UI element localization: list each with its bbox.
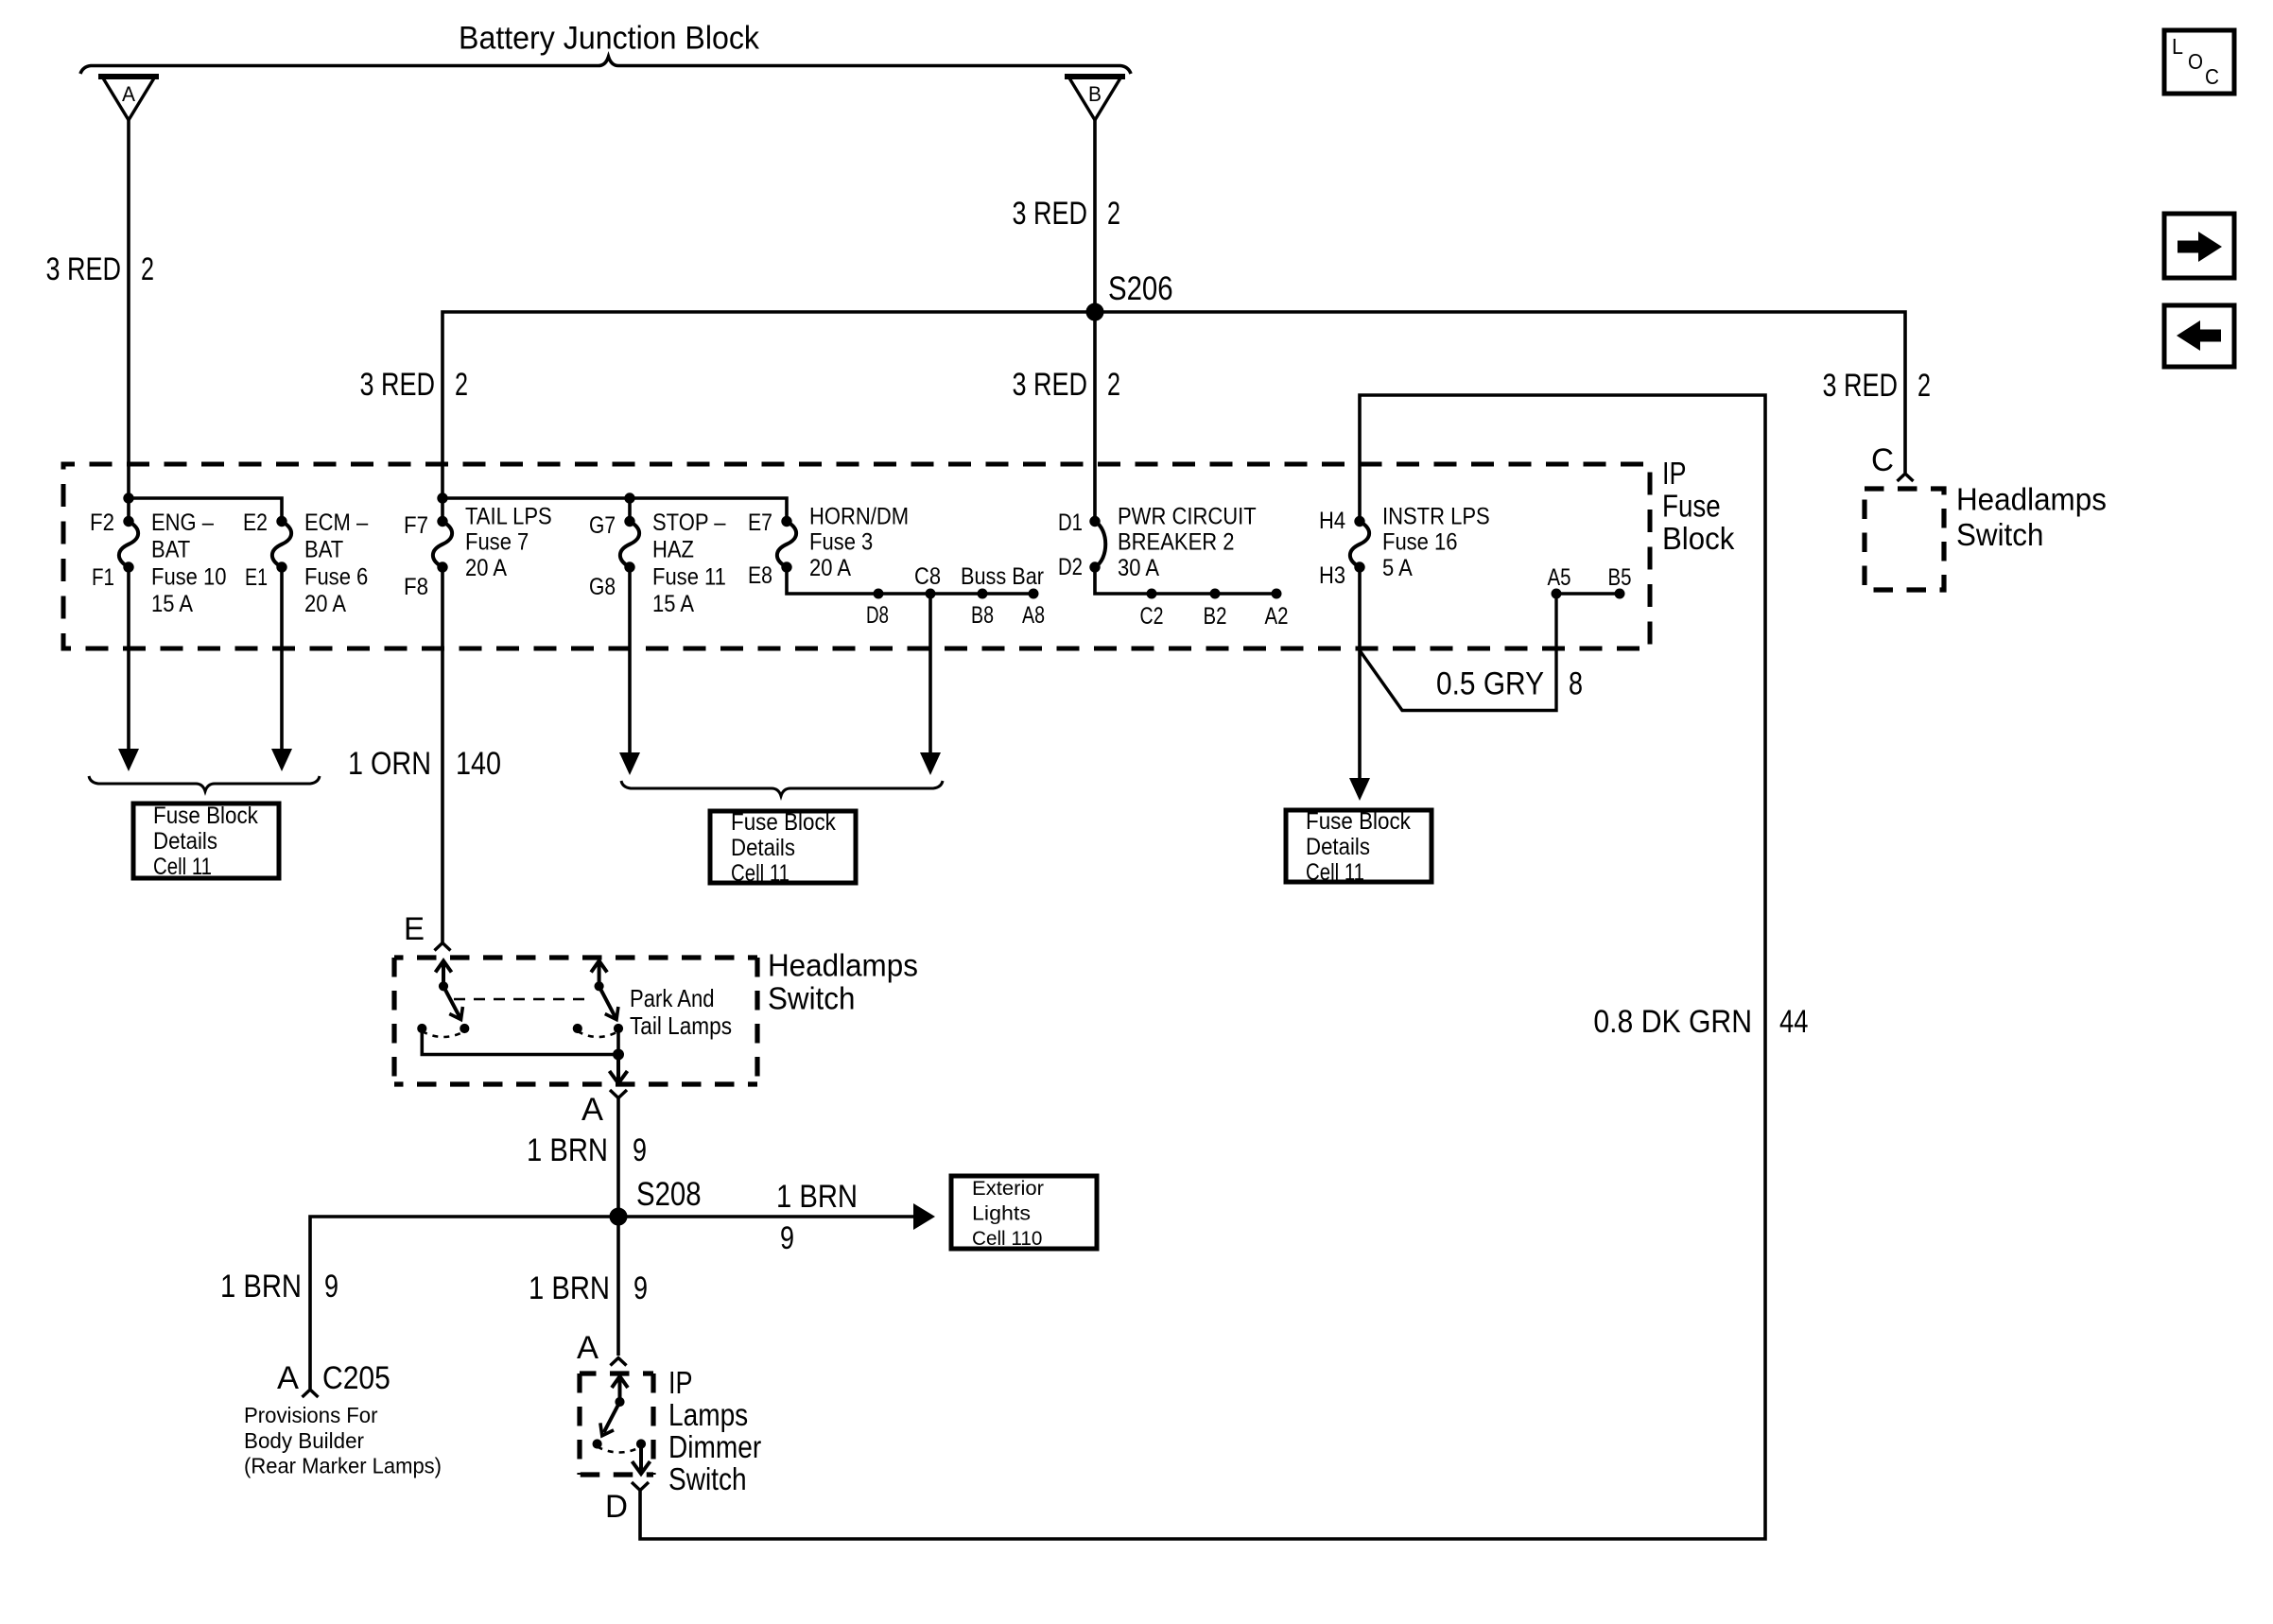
svg-text:Details: Details <box>153 828 217 855</box>
svg-text:O: O <box>2188 49 2203 74</box>
svg-text:B: B <box>1088 82 1102 106</box>
legend: LOC box <box>2164 30 2234 94</box>
svg-text:Switch: Switch <box>1956 517 2043 552</box>
svg-text:D2: D2 <box>1058 554 1083 580</box>
legend: back arrow box <box>2164 305 2234 367</box>
svg-text:2: 2 <box>141 251 154 287</box>
svg-text:D: D <box>605 1489 628 1525</box>
svg-text:Cell 11: Cell 11 <box>153 854 212 880</box>
svg-text:9: 9 <box>780 1220 794 1256</box>
svg-text:Headlamps: Headlamps <box>768 948 918 983</box>
svg-text:Fuse 16: Fuse 16 <box>1382 529 1458 556</box>
svg-text:A: A <box>122 82 135 106</box>
svg-text:9: 9 <box>324 1269 338 1304</box>
callout box: Fuse Block Details Cell 11 (middle) <box>710 811 856 883</box>
svg-text:A2: A2 <box>1265 603 1289 630</box>
svg-text:5 A: 5 A <box>1382 555 1413 581</box>
svg-text:1 BRN: 1 BRN <box>527 1132 608 1168</box>
IP lamps dimmer switch dashed box <box>580 1371 653 1375</box>
wire: feed B to PWR circuit breaker <box>1093 120 1097 522</box>
svg-text:3 RED: 3 RED <box>1823 368 1899 404</box>
wire: jumper F7 to G7 to E7 <box>442 498 787 522</box>
splice S206 <box>1086 303 1103 320</box>
svg-text:Buss Bar: Buss Bar <box>961 563 1044 590</box>
svg-text:20 A: 20 A <box>465 555 507 581</box>
callout box: Exterior Lights Cell 110 <box>951 1176 1097 1249</box>
callout box: Fuse Block Details Cell 11 (right) <box>1286 810 1431 882</box>
svg-text:F1: F1 <box>92 564 114 591</box>
svg-text:Details: Details <box>1306 834 1370 860</box>
svg-text:1 BRN: 1 BRN <box>529 1270 610 1306</box>
connector D (dimmer output) <box>632 1482 640 1491</box>
connector B (battery junction block) triangle <box>1068 77 1121 120</box>
wire: TAIL LPS output 1 ORN <box>441 567 444 943</box>
callout box: Fuse Block Details Cell 11 (left) <box>133 803 279 878</box>
wire: breaker output terminals <box>1095 567 1276 594</box>
svg-text:Dimmer: Dimmer <box>668 1429 761 1464</box>
svg-text:A: A <box>581 1092 603 1128</box>
wire: 0.5 GRY jumper <box>1360 594 1556 711</box>
svg-text:INSTR LPS: INSTR LPS <box>1382 504 1490 530</box>
svg-text:D1: D1 <box>1058 510 1083 536</box>
svg-text:Fuse 10: Fuse 10 <box>151 563 227 590</box>
svg-text:2: 2 <box>1107 196 1120 232</box>
svg-text:S206: S206 <box>1108 270 1173 307</box>
svg-text:D8: D8 <box>866 602 889 629</box>
svg-text:H3: H3 <box>1319 562 1345 589</box>
svg-text:2: 2 <box>455 367 468 403</box>
connector A into dimmer switch <box>611 1358 627 1366</box>
svg-text:3 RED: 3 RED <box>46 251 122 287</box>
svg-text:H4: H4 <box>1319 508 1345 534</box>
wire: jumper F2 to E2 <box>129 498 282 522</box>
svg-text:Cell 11: Cell 11 <box>731 860 789 887</box>
svg-text:9: 9 <box>633 1270 648 1306</box>
svg-text:15 A: 15 A <box>652 591 694 617</box>
connector A (battery junction block) triangle <box>102 77 155 120</box>
svg-text:0.5 GRY: 0.5 GRY <box>1436 666 1544 702</box>
headlamps switch dashed box <box>394 955 757 959</box>
wire: switch output net <box>422 1028 618 1055</box>
wire: G8 down arrow <box>628 567 632 754</box>
svg-text:1 BRN: 1 BRN <box>220 1269 302 1304</box>
svg-text:Lamps: Lamps <box>668 1397 748 1432</box>
svg-text:PWR CIRCUIT: PWR CIRCUIT <box>1118 504 1257 530</box>
connector C into headlamps switch <box>1898 474 1914 481</box>
svg-text:B8: B8 <box>971 602 994 629</box>
svg-text:8: 8 <box>1569 666 1583 702</box>
svg-text:E: E <box>404 911 425 947</box>
svg-text:Battery Junction Block: Battery Junction Block <box>459 21 760 57</box>
svg-text:44: 44 <box>1779 1004 1808 1040</box>
svg-text:2: 2 <box>1917 368 1931 404</box>
svg-text:2: 2 <box>1107 367 1120 403</box>
switch arm 1 (headlamps) <box>442 964 445 986</box>
svg-text:15 A: 15 A <box>151 591 193 617</box>
svg-text:A8: A8 <box>1022 602 1045 629</box>
svg-text:Fuse Block: Fuse Block <box>153 803 258 829</box>
svg-text:Park And: Park And <box>630 984 715 1012</box>
svg-text:0.8 DK GRN: 0.8 DK GRN <box>1593 1004 1752 1040</box>
brace: fuse block details 2 <box>621 781 943 796</box>
svg-text:HAZ: HAZ <box>652 537 694 563</box>
svg-text:G8: G8 <box>589 574 616 600</box>
svg-text:Headlamps: Headlamps <box>1956 482 2107 517</box>
svg-text:E7: E7 <box>748 510 772 536</box>
circuit breaker PWR CIRCUIT BREAKER 2 <box>1090 516 1100 526</box>
svg-text:Cell 11: Cell 11 <box>1306 859 1364 886</box>
svg-text:C205: C205 <box>322 1360 390 1396</box>
svg-text:Fuse 6: Fuse 6 <box>304 563 368 590</box>
svg-text:C2: C2 <box>1140 603 1164 630</box>
svg-text:Exterior: Exterior <box>972 1178 1044 1200</box>
svg-text:TAIL LPS: TAIL LPS <box>465 504 552 530</box>
buss bar <box>787 567 1033 594</box>
svg-text:9: 9 <box>633 1132 647 1168</box>
svg-text:Tail Lamps: Tail Lamps <box>630 1011 732 1040</box>
headlamps switch dashed box (right) <box>1865 489 1944 590</box>
fuse ECM-BAT Fuse 6 <box>277 516 286 526</box>
svg-text:Cell 110: Cell 110 <box>972 1228 1042 1250</box>
svg-text:ECM –: ECM – <box>304 510 368 536</box>
svg-text:BAT: BAT <box>151 537 190 563</box>
svg-text:20 A: 20 A <box>809 555 851 581</box>
connector A (headlamps switch output) <box>610 1090 618 1098</box>
fuse INSTR LPS Fuse 16 <box>1355 516 1364 526</box>
svg-text:HORN/DM: HORN/DM <box>809 504 909 530</box>
wire: S206 branch to TAIL LPS and headlamps switch C <box>442 312 1905 522</box>
svg-text:(Rear Marker Lamps): (Rear Marker Lamps) <box>244 1454 442 1478</box>
connector E into headlamps switch <box>435 943 451 951</box>
svg-text:A5: A5 <box>1548 564 1571 591</box>
wire: C8 down arrow <box>928 594 932 754</box>
svg-text:Body Builder: Body Builder <box>244 1428 364 1453</box>
fuse HORN/DM Fuse 3 <box>782 516 791 526</box>
svg-text:E8: E8 <box>748 562 772 589</box>
svg-text:Switch: Switch <box>668 1461 747 1496</box>
svg-text:ENG –: ENG – <box>151 510 214 536</box>
dimmer switch arm <box>618 1379 622 1402</box>
fuse TAIL LPS Fuse 7 <box>438 516 447 526</box>
svg-text:1 ORN: 1 ORN <box>348 746 431 782</box>
wire: S208 to exterior lights <box>618 1215 919 1218</box>
svg-text:C8: C8 <box>914 563 941 590</box>
wire: E1 down arrow <box>280 567 284 751</box>
switch arm 2 (park and tail lamps) <box>598 964 601 986</box>
svg-text:B2: B2 <box>1204 603 1227 630</box>
svg-text:F7: F7 <box>404 512 428 539</box>
svg-text:Lights: Lights <box>972 1202 1031 1224</box>
wire: H3 down arrow <box>1358 567 1362 780</box>
svg-text:Details: Details <box>731 835 795 861</box>
svg-text:Fuse 3: Fuse 3 <box>809 529 873 556</box>
splice S208 <box>610 1208 627 1225</box>
legend: forward arrow box <box>2164 214 2234 278</box>
svg-text:3 RED: 3 RED <box>1013 367 1088 403</box>
wire: S208 to dimmer switch <box>616 1217 620 1356</box>
svg-text:BREAKER 2: BREAKER 2 <box>1118 529 1235 556</box>
brace: fuse block details 1 <box>89 776 320 791</box>
svg-text:C: C <box>1871 442 1894 478</box>
svg-text:F8: F8 <box>404 574 428 600</box>
svg-text:S208: S208 <box>636 1176 702 1213</box>
svg-text:IP: IP <box>1662 456 1687 491</box>
wire: S208 to C205 <box>310 1217 618 1389</box>
wire: 0.8 DK GRN loop to INSTR LPS <box>640 395 1765 1539</box>
svg-text:3 RED: 3 RED <box>360 367 436 403</box>
svg-text:Fuse 11: Fuse 11 <box>652 563 726 590</box>
svg-text:Fuse Block: Fuse Block <box>1306 808 1411 835</box>
svg-text:20 A: 20 A <box>304 591 346 617</box>
svg-text:STOP –: STOP – <box>652 510 726 536</box>
svg-text:Fuse 7: Fuse 7 <box>465 529 529 556</box>
svg-text:Fuse: Fuse <box>1662 488 1721 523</box>
svg-text:Provisions For: Provisions For <box>244 1403 378 1427</box>
svg-text:G7: G7 <box>589 512 616 539</box>
svg-text:Fuse Block: Fuse Block <box>731 809 836 836</box>
svg-text:BAT: BAT <box>304 537 343 563</box>
svg-text:3 RED: 3 RED <box>1013 196 1088 232</box>
svg-text:Switch: Switch <box>768 981 855 1016</box>
svg-text:A: A <box>577 1330 599 1366</box>
terminal A5-B5 <box>1556 592 1620 596</box>
switch mechanical link <box>454 998 586 1001</box>
wire: F1 down arrow <box>127 567 130 751</box>
svg-text:IP: IP <box>668 1365 693 1400</box>
fuse ENG-BAT Fuse 10 <box>124 516 133 526</box>
brace: battery junction block <box>80 57 1131 74</box>
svg-text:E2: E2 <box>243 510 268 536</box>
svg-text:C: C <box>2205 64 2219 89</box>
svg-text:30 A: 30 A <box>1118 555 1159 581</box>
fuse STOP-HAZ Fuse 11 <box>625 516 634 526</box>
svg-text:F2: F2 <box>90 510 114 536</box>
connector A C205 <box>303 1390 319 1397</box>
svg-text:A: A <box>277 1360 299 1396</box>
svg-text:B5: B5 <box>1608 564 1632 591</box>
IP fuse block dashed outline <box>63 464 1650 648</box>
svg-text:E1: E1 <box>245 564 268 591</box>
svg-text:140: 140 <box>456 746 501 782</box>
wire: feed A to ENG-BAT fuse <box>127 120 130 522</box>
svg-text:1 BRN: 1 BRN <box>776 1179 858 1215</box>
svg-text:Block: Block <box>1662 521 1735 556</box>
svg-text:L: L <box>2172 34 2183 59</box>
